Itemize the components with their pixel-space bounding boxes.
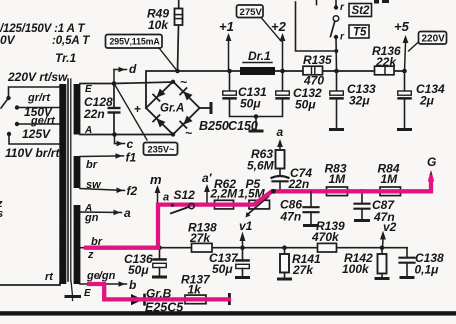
- node bridge bottom corner: [171, 132, 175, 136]
- svg-text:2μ: 2μ: [419, 94, 435, 108]
- node C131 on rail: [227, 69, 232, 74]
- switch contact 110V: [7, 132, 11, 136]
- capacitor C132: [282, 71, 284, 91]
- svg-text:47n: 47n: [280, 210, 302, 224]
- ground under C150: [255, 117, 257, 130]
- resistor R141: [284, 248, 286, 254]
- node ground junction under bridge: [254, 114, 259, 119]
- diode Gr.B: [131, 294, 143, 305]
- svg-text:f1: f1: [126, 151, 137, 165]
- svg-text:E: E: [84, 288, 91, 299]
- voltage box 235V~: [144, 143, 178, 156]
- resistor R62: [215, 200, 234, 209]
- wire signal line R83/R84: [272, 190, 431, 192]
- resistor R49: [178, 0, 180, 9]
- svg-text:+5: +5: [394, 19, 410, 34]
- wire 220V tap: [1, 87, 60, 108]
- svg-text:50μ: 50μ: [295, 98, 316, 112]
- svg-text:0,1μ: 0,1μ: [415, 263, 440, 277]
- svg-text:r: r: [340, 32, 345, 43]
- switch contact 220V: [6, 96, 10, 100]
- node bridge top corner: [171, 80, 175, 84]
- node C74 junction on trace: [271, 189, 276, 194]
- svg-text:50μ: 50μ: [240, 97, 261, 111]
- cut wire stub at top edge: [316, 0, 318, 5]
- capacitor C128: [113, 84, 115, 107]
- switch contact 150V: [15, 105, 19, 109]
- switch S12 contact dot: [171, 204, 174, 207]
- svg-text:32μ: 32μ: [349, 94, 370, 108]
- svg-text:295V,115mA: 295V,115mA: [110, 37, 161, 47]
- svg-text:470: 470: [303, 74, 324, 88]
- svg-text:0V: 0V: [0, 33, 16, 47]
- capacitor C87: [361, 191, 363, 203]
- svg-text:gn: gn: [84, 212, 99, 224]
- capacitor C74: [279, 169, 281, 176]
- svg-text:100k: 100k: [342, 262, 370, 276]
- svg-text:br: br: [86, 159, 98, 171]
- switch contact 125V: [15, 122, 19, 126]
- node c: [112, 132, 117, 137]
- bridge diode top-left: [153, 88, 166, 101]
- svg-text:50μ: 50μ: [128, 263, 149, 277]
- box label T5: [349, 25, 369, 38]
- svg-text:gr/rt: gr/rt: [27, 92, 51, 104]
- svg-text:Tr.1: Tr.1: [55, 51, 76, 65]
- node C134 on rail: [402, 69, 407, 74]
- svg-text:22n: 22n: [83, 107, 105, 121]
- transformer secondary winding 2: [74, 156, 81, 188]
- svg-text:2,2M: 2,2M: [210, 187, 239, 201]
- capacitor C134: [404, 71, 406, 91]
- resistor R137: [185, 295, 206, 304]
- capacitor C86: [310, 192, 312, 207]
- transformer secondary winding 3: [74, 205, 81, 284]
- wire S12 to P5 line: [158, 204, 254, 206]
- switch St2 pivot circle: [333, 16, 339, 22]
- potentiometer P5: [249, 200, 270, 209]
- wire St2 down to rail: [335, 37, 338, 71]
- svg-text:50μ: 50μ: [212, 262, 233, 276]
- arrow d: [113, 70, 115, 84]
- svg-text:v2: v2: [383, 220, 397, 234]
- bridge diode top-right: [180, 88, 193, 101]
- node C136: [157, 245, 162, 250]
- svg-text:22n: 22n: [288, 177, 310, 191]
- potentiometer P5 wiper: [248, 197, 269, 215]
- svg-text:rt: rt: [45, 271, 54, 283]
- transformer core lines: [67, 79, 69, 281]
- capacitor C131: [229, 71, 231, 91]
- capacitor C138: [406, 248, 408, 257]
- svg-text:~: ~: [180, 75, 187, 89]
- switch S12 blade: [171, 207, 189, 214]
- svg-text:a: a: [277, 125, 284, 139]
- wire 125V tap: [17, 123, 60, 125]
- scan noise overlay: [0, 0, 1, 1]
- magenta highlighted trace lower: [89, 284, 229, 299]
- resistor R83: [327, 187, 348, 196]
- svg-text:125V: 125V: [22, 127, 51, 141]
- magenta arrowhead to G: [428, 170, 435, 182]
- node d: [112, 81, 117, 86]
- terminal tick at end of lower trace: [228, 293, 231, 305]
- svg-text:R135: R135: [303, 53, 332, 67]
- wire 110V tap: [9, 134, 60, 144]
- arrow a output: [80, 211, 122, 214]
- node C132 on rail: [280, 69, 285, 74]
- svg-text:235V~: 235V~: [148, 145, 175, 155]
- svg-text:+: +: [134, 102, 141, 116]
- svg-text:Gr.A: Gr.A: [160, 103, 184, 115]
- resistor R84: [380, 187, 401, 196]
- svg-text:470k: 470k: [311, 230, 340, 244]
- bridge diode bottom-left: [153, 115, 166, 128]
- svg-text:220V rt/sw: 220V rt/sw: [7, 70, 68, 84]
- svg-text:T5: T5: [353, 27, 367, 39]
- pointer 275V box to +2: [261, 18, 281, 42]
- svg-text:s: s: [0, 208, 3, 220]
- voltage box 275V: [237, 5, 264, 18]
- svg-text:275V: 275V: [240, 7, 263, 18]
- node R141: [282, 245, 287, 250]
- pointer line 235V box to node d: [115, 85, 147, 140]
- wire z tap line: [80, 247, 407, 249]
- capacitor C137: [242, 248, 244, 259]
- cut text at top edge: [374, 0, 379, 4]
- wire A line to bridge: [80, 134, 173, 136]
- switch S12 pivot circle: [189, 203, 194, 208]
- svg-text:220V: 220V: [422, 34, 446, 45]
- node C87: [360, 189, 365, 194]
- pointer 295V box to rail node: [159, 48, 177, 70]
- svg-text:+1: +1: [219, 19, 234, 34]
- svg-text:G: G: [427, 155, 436, 169]
- transformer core ground: [71, 281, 73, 301]
- switch St2 wire from top: [335, 0, 337, 7]
- svg-text:c: c: [127, 137, 134, 151]
- node C133 on rail: [334, 69, 339, 74]
- svg-text:d: d: [129, 62, 137, 76]
- svg-text:E: E: [85, 84, 92, 95]
- switch St2 blade: [331, 21, 335, 36]
- svg-text:+2: +2: [271, 19, 287, 34]
- wire from top edge to St2 node: [296, 2, 337, 51]
- resistor R142: [381, 248, 383, 254]
- wire rail left corner to bridge plus: [146, 71, 405, 108]
- choke Dr.1: [240, 67, 275, 75]
- svg-text:5,6M: 5,6M: [247, 159, 275, 173]
- box label St2: [349, 4, 372, 17]
- node R142: [380, 245, 385, 250]
- svg-text:ge/gn: ge/gn: [86, 270, 116, 282]
- bottom border bar: [0, 311, 456, 315]
- svg-text:z: z: [87, 249, 94, 261]
- arrow c: [114, 135, 116, 144]
- svg-text:a: a: [124, 206, 131, 220]
- wire 150V tap: [17, 107, 60, 109]
- svg-text:~: ~: [185, 126, 192, 140]
- svg-text:v1: v1: [239, 219, 253, 233]
- voltage box 220V: [419, 32, 447, 45]
- svg-text:1M: 1M: [329, 172, 347, 186]
- switch St2 contact bottom: [334, 35, 338, 39]
- capacitor C133: [336, 71, 338, 91]
- svg-text:a: a: [163, 192, 169, 204]
- arrow b: [80, 283, 127, 285]
- svg-text:St2: St2: [352, 5, 371, 17]
- svg-text:m: m: [150, 172, 162, 187]
- svg-text:Dr.1: Dr.1: [248, 49, 271, 63]
- node R49 on rail: [175, 69, 180, 74]
- magenta highlighted signal trace main: [86, 181, 431, 248]
- voltage box 295V,115mA: [106, 35, 163, 49]
- wire E line to bridge: [80, 82, 173, 84]
- svg-text:S12: S12: [174, 188, 196, 202]
- svg-text:27k: 27k: [292, 263, 314, 277]
- bridge rectifier Gr.A diamond: [146, 82, 200, 135]
- svg-text:r: r: [340, 2, 345, 13]
- svg-text:a′: a′: [202, 171, 213, 185]
- svg-text:ge/rt: ge/rt: [30, 115, 56, 127]
- arrow f1: [80, 155, 124, 158]
- svg-text::0,5A T: :0,5A T: [52, 35, 90, 47]
- svg-text:1M: 1M: [381, 172, 399, 186]
- svg-text:f2: f2: [127, 184, 138, 198]
- switch St2 contact top: [334, 5, 338, 9]
- capacitor C136: [159, 248, 161, 258]
- svg-text:110V br/rt: 110V br/rt: [5, 146, 60, 160]
- svg-text:B250: B250: [199, 119, 229, 133]
- svg-text:b: b: [129, 278, 136, 292]
- svg-text:10k: 10k: [148, 18, 169, 32]
- pointer 220V box to +5: [409, 42, 419, 51]
- wire mains bottom: [0, 283, 60, 285]
- bridge diode bottom-right: [180, 115, 193, 128]
- arrow f2: [80, 189, 125, 191]
- transformer Tr.1 primary winding: [59, 84, 66, 284]
- transformer secondary winding 1: [74, 84, 81, 135]
- bridge minus terminal: [200, 107, 211, 109]
- node C137: [240, 245, 245, 250]
